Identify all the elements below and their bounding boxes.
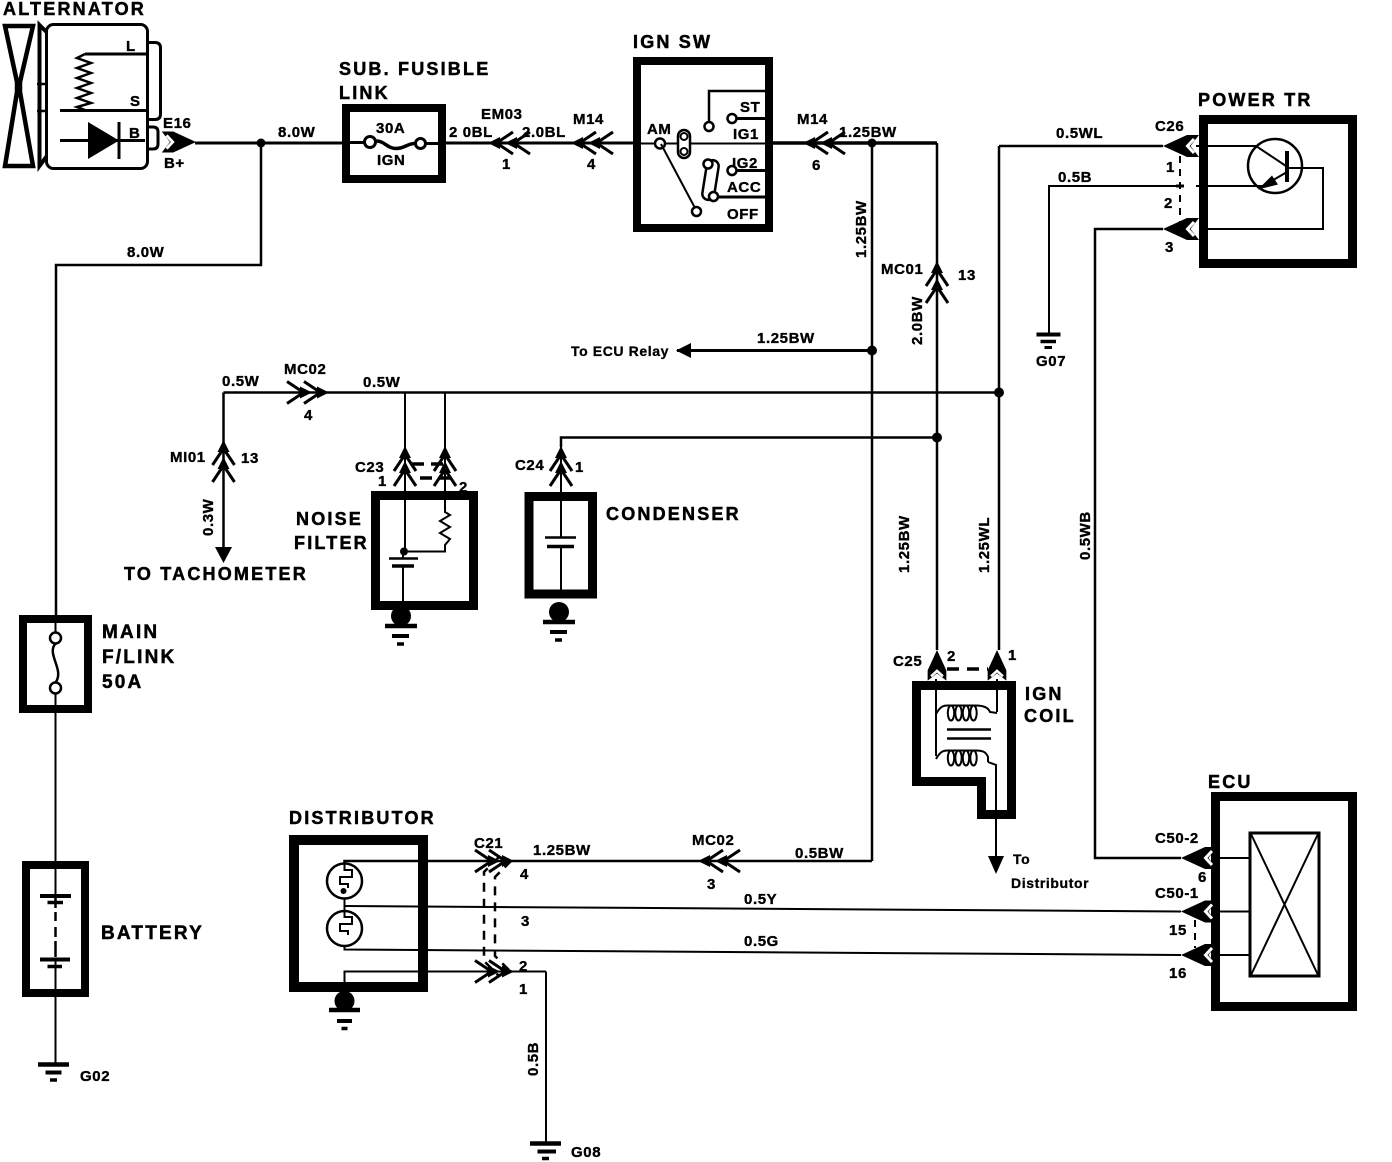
transformer secondary winding xyxy=(936,750,988,765)
svg-text:Distributor: Distributor xyxy=(1011,875,1089,891)
switch contact capsule (slanted) xyxy=(701,159,719,200)
wire stubs to block xyxy=(1213,857,1250,859)
battery box xyxy=(26,865,85,993)
wire condenser feed xyxy=(561,438,937,448)
AM wire through switch xyxy=(641,143,765,145)
noise filter case ground grommet xyxy=(391,606,411,626)
svg-text:2.0BW: 2.0BW xyxy=(909,296,926,345)
wire IGN SW output to junction xyxy=(769,141,937,145)
connector C23 pin 1 chevron xyxy=(394,446,416,486)
main fusible link box xyxy=(23,619,88,709)
svg-text:MAIN: MAIN xyxy=(102,622,159,643)
svg-text:To ECU Relay: To ECU Relay xyxy=(571,343,669,359)
connector MC02 chevron (pin 4) xyxy=(287,382,329,404)
transistor emitter lead with arrow xyxy=(1196,172,1287,186)
svg-text:C50-2: C50-2 xyxy=(1155,830,1199,847)
sub fusible link box xyxy=(346,108,442,179)
wire 2.0BW vertical from top corner xyxy=(936,143,939,650)
svg-text:0.5WL: 0.5WL xyxy=(1056,125,1103,142)
svg-text:COIL: COIL xyxy=(1024,706,1076,726)
pickup coil 2 (bottom circle) xyxy=(327,911,362,946)
condenser capacitor C xyxy=(560,500,562,537)
svg-text:G08: G08 xyxy=(571,1144,601,1161)
svg-text:C25: C25 xyxy=(893,653,922,670)
svg-text:2.0BL: 2.0BL xyxy=(522,124,566,141)
coil HT output wire xyxy=(988,762,996,856)
connector C25 pin 1 arrow xyxy=(988,650,1007,681)
wire battery to ground xyxy=(55,993,57,1063)
svg-text:0.5Y: 0.5Y xyxy=(744,891,777,908)
svg-text:E16: E16 xyxy=(163,115,192,132)
wire 0.5B to ground G08 xyxy=(545,972,547,1143)
ECU box xyxy=(1216,797,1353,1007)
svg-text:30A: 30A xyxy=(376,120,405,137)
transistor collector lead xyxy=(1201,168,1323,229)
svg-text:3: 3 xyxy=(1165,239,1174,256)
terminal L wire xyxy=(85,53,146,56)
svg-text:C21: C21 xyxy=(474,835,503,852)
condenser box xyxy=(529,497,593,595)
connector C25 pin 2 arrow xyxy=(928,650,947,681)
svg-text:M14: M14 xyxy=(797,111,828,128)
wire flink to battery xyxy=(55,709,57,865)
svg-text:0.5W: 0.5W xyxy=(363,374,401,391)
svg-text:1: 1 xyxy=(1166,159,1175,176)
svg-text:0.5G: 0.5G xyxy=(744,933,779,950)
connector MI01 chevron (pin 13) xyxy=(213,440,235,482)
connector C26 pin 1 arrow xyxy=(1163,135,1199,157)
svg-text:EM03: EM03 xyxy=(481,106,523,123)
svg-text:S: S xyxy=(130,93,141,110)
svg-text:C50-1: C50-1 xyxy=(1155,885,1199,902)
pin 2 tick xyxy=(1176,185,1184,188)
SECTION: power transistor xyxy=(999,90,1353,858)
condenser case ground grommet xyxy=(549,602,569,622)
svg-text:4: 4 xyxy=(520,866,529,883)
connector M14 chevron xyxy=(571,132,613,154)
AM terminal circle xyxy=(655,139,665,149)
wire drop to C23 pin 2 xyxy=(444,393,446,501)
svg-text:L: L xyxy=(126,38,136,55)
connector C24 pin 1 chevron xyxy=(550,446,572,486)
svg-text:MC02: MC02 xyxy=(692,832,734,849)
coil secondary feed wire (pin 1 side) xyxy=(996,679,998,712)
svg-text:16: 16 xyxy=(1169,965,1187,982)
C26 dashed link xyxy=(1179,156,1181,222)
transformer primary winding xyxy=(936,705,997,720)
svg-text:1: 1 xyxy=(519,981,528,998)
svg-text:1: 1 xyxy=(575,459,584,476)
svg-text:6: 6 xyxy=(812,157,821,174)
wire 0.5W horizontal run xyxy=(224,391,1000,394)
wire 0.5WB pin 3 to ECU xyxy=(1095,229,1181,858)
ECU internal block with X xyxy=(1250,833,1319,976)
wire pin 3 (0.5Y) xyxy=(345,906,1182,912)
svg-text:1: 1 xyxy=(502,156,511,173)
pickup coil 1 (top circle) xyxy=(327,864,362,899)
svg-text:6: 6 xyxy=(1198,869,1207,886)
ground G02 xyxy=(38,1065,69,1081)
fusible link element 30A xyxy=(348,141,365,144)
connector C50-1 pin 16 arrow xyxy=(1181,944,1217,966)
svg-text:1.25BW: 1.25BW xyxy=(757,330,815,347)
alternator pulley hub lines xyxy=(37,84,46,111)
POWER TR box xyxy=(1204,120,1353,264)
svg-text:M14: M14 xyxy=(573,111,604,128)
svg-text:1.25BW: 1.25BW xyxy=(853,200,870,258)
svg-text:OFF: OFF xyxy=(727,206,759,223)
alternator field coil (rotor winding) xyxy=(77,54,91,110)
noise filter internal wire pin1 xyxy=(404,500,406,551)
svg-text:C26: C26 xyxy=(1155,118,1184,135)
SECTION: center wires xyxy=(124,139,1004,862)
svg-text:0.5BW: 0.5BW xyxy=(795,845,844,862)
C23 dashed links xyxy=(412,462,447,466)
svg-text:F/LINK: F/LINK xyxy=(102,647,176,668)
connector shell bracket B xyxy=(148,127,158,149)
ground (condenser) xyxy=(543,622,575,640)
rectifier diode xyxy=(88,122,119,159)
svg-text:To: To xyxy=(1013,851,1030,867)
svg-text:SUB. FUSIBLE: SUB. FUSIBLE xyxy=(339,59,490,79)
svg-text:C24: C24 xyxy=(515,457,544,474)
svg-text:3: 3 xyxy=(521,913,530,930)
IG2 terminal circle and wire xyxy=(728,166,737,175)
SECTION: distributor xyxy=(289,808,1181,1161)
svg-text:FILTER: FILTER xyxy=(294,533,369,553)
svg-text:0.5W: 0.5W xyxy=(222,373,260,390)
wire fuse to IGN SW xyxy=(446,142,635,145)
svg-text:1.25BW: 1.25BW xyxy=(533,842,591,859)
SECTION: ign coil xyxy=(893,647,1089,891)
C25 dashed link xyxy=(947,667,988,671)
svg-text:B+: B+ xyxy=(164,155,185,172)
svg-text:ALTERNATOR: ALTERNATOR xyxy=(3,0,146,19)
svg-text:0.5B: 0.5B xyxy=(525,1042,542,1076)
wire pin 2 (0.5G) xyxy=(345,946,1182,955)
svg-text:0.3W: 0.3W xyxy=(200,498,217,536)
svg-text:50A: 50A xyxy=(102,672,143,693)
svg-text:2: 2 xyxy=(519,958,528,975)
connector shell bracket L-S xyxy=(148,43,161,120)
svg-text:4: 4 xyxy=(304,407,313,424)
wire 1.25BW vertical (to coil circuit) xyxy=(871,143,874,861)
wire to ECU relay xyxy=(677,349,872,352)
svg-text:2: 2 xyxy=(1164,195,1173,212)
wire drop to C24 pin 1 xyxy=(560,447,562,500)
junction dot in noise filter xyxy=(400,548,408,556)
svg-text:ST: ST xyxy=(740,99,760,116)
alternator pulley left sheave xyxy=(5,26,33,166)
ST feed wire xyxy=(709,91,765,121)
wire pin 1 (ground lead) xyxy=(345,972,547,986)
SECTION: alternator xyxy=(3,0,196,172)
svg-text:8.0W: 8.0W xyxy=(127,244,165,261)
SECTION: ignition switch xyxy=(633,32,937,228)
junction dot condenser feed joins v2 xyxy=(932,433,942,443)
connector E16 arrow (B+ output) xyxy=(162,132,196,153)
svg-text:BATTERY: BATTERY xyxy=(101,923,204,944)
C21 dashed bracket xyxy=(484,857,499,976)
SECTION: ecu xyxy=(1155,772,1353,1007)
svg-text:15: 15 xyxy=(1169,922,1187,939)
svg-text:4: 4 xyxy=(587,156,596,173)
junction at B+ node xyxy=(257,139,266,148)
distributor ground grommet xyxy=(335,991,355,1011)
ign coil T1 case (L-shaped box) xyxy=(917,686,1012,815)
distributor box xyxy=(294,840,423,987)
ground G07 xyxy=(1037,335,1061,348)
alternator pulley right sheave xyxy=(40,25,52,166)
svg-text:ECU: ECU xyxy=(1208,772,1253,792)
svg-text:13: 13 xyxy=(241,450,259,467)
wire down to tachometer xyxy=(222,393,225,549)
svg-text:2: 2 xyxy=(947,648,956,665)
svg-text:3: 3 xyxy=(707,876,716,893)
connector C50-1 pin 15 arrow xyxy=(1181,901,1217,923)
connector C21 pin 1 chevron xyxy=(475,961,514,983)
wire branch down from junction xyxy=(56,143,261,615)
junction dot 0.5W joins v3 xyxy=(994,388,1004,398)
transistor base lead xyxy=(1196,146,1286,166)
wire between pickup circles xyxy=(344,898,346,911)
SECTION: noise filter / condenser xyxy=(294,393,741,645)
arrow To Distributor xyxy=(988,856,1004,874)
transistor Q1 circle xyxy=(1248,139,1302,193)
svg-text:DISTRIBUTOR: DISTRIBUTOR xyxy=(289,808,436,828)
connector C21 pin 4 chevron xyxy=(475,850,514,872)
ST terminal circle and wire xyxy=(728,114,737,123)
svg-text:MI01: MI01 xyxy=(170,449,206,466)
svg-text:NOISE: NOISE xyxy=(296,509,363,529)
svg-text:1.25WL: 1.25WL xyxy=(976,517,993,573)
svg-text:1: 1 xyxy=(1008,647,1017,664)
connector M14 chevron pin 6 xyxy=(803,132,845,154)
svg-text:TO TACHOMETER: TO TACHOMETER xyxy=(124,564,308,584)
noise filter box xyxy=(376,496,474,606)
SECTION: fusible link xyxy=(56,59,635,615)
svg-text:IG1: IG1 xyxy=(733,126,759,143)
IGN SW box xyxy=(637,61,769,228)
noise filter capacitor xyxy=(389,557,418,560)
svg-text:0.5WB: 0.5WB xyxy=(1077,511,1094,560)
wire drop to C23 pin 1 xyxy=(404,393,406,501)
svg-text:1.25BW: 1.25BW xyxy=(839,124,897,141)
svg-text:8.0W: 8.0W xyxy=(278,124,316,141)
connector MC02 chevron pin 3 xyxy=(698,850,740,872)
svg-text:G02: G02 xyxy=(80,1068,110,1085)
svg-text:MC01: MC01 xyxy=(881,261,923,278)
connector C50-2 pin 6 arrow xyxy=(1181,847,1217,869)
connector C23 pin 2 chevron xyxy=(434,446,456,486)
svg-text:MC02: MC02 xyxy=(284,361,326,378)
arrow to ECU relay xyxy=(676,343,691,358)
connector C26 pin 3 arrow xyxy=(1163,218,1199,240)
svg-text:IGN: IGN xyxy=(1025,684,1064,704)
wire B+ to junction xyxy=(195,142,342,145)
wire 0.5WL vertical segment (v3) xyxy=(998,146,1001,650)
diode wire xyxy=(60,139,145,142)
transistor base bar xyxy=(1285,151,1289,182)
ground (noise filter) xyxy=(385,626,417,644)
svg-text:13: 13 xyxy=(958,267,976,284)
svg-text:IGN SW: IGN SW xyxy=(633,32,712,52)
connector EM03 chevron xyxy=(488,132,530,154)
svg-text:B: B xyxy=(129,125,140,142)
svg-text:2 0BL: 2 0BL xyxy=(449,124,493,141)
main fusible link element xyxy=(50,633,61,644)
svg-text:CONDENSER: CONDENSER xyxy=(606,504,741,524)
svg-text:IGN: IGN xyxy=(377,152,405,169)
svg-text:AM: AM xyxy=(647,121,672,138)
svg-text:POWER TR: POWER TR xyxy=(1198,90,1313,110)
coil primary feed wire (pin 2 side) xyxy=(935,679,937,756)
svg-text:0.5B: 0.5B xyxy=(1058,169,1092,186)
arrow to tachometer xyxy=(215,547,232,563)
ACC wire from capsule xyxy=(718,196,765,199)
battery cells xyxy=(40,869,71,989)
ground G08 xyxy=(530,1144,561,1159)
noise filter resistor (choke) xyxy=(408,500,450,552)
connector MC01 chevron (pin 13) xyxy=(926,261,948,303)
transformer core xyxy=(947,728,991,731)
alternator body box xyxy=(47,25,148,169)
wire 0.5WL to pin 1 xyxy=(999,145,1163,148)
wire 0.5B from pin 2 to ground xyxy=(1049,186,1176,333)
svg-text:1.25BW: 1.25BW xyxy=(896,515,913,573)
wire pin 4 (1.25BW) xyxy=(345,861,873,863)
svg-text:G07: G07 xyxy=(1036,353,1066,370)
switch contact capsule (vertical) xyxy=(678,130,690,158)
switch lever xyxy=(661,144,695,208)
svg-text:1: 1 xyxy=(378,473,387,490)
SECTION: main flink battery xyxy=(23,619,204,1085)
ground (distributor) xyxy=(329,1010,360,1029)
svg-text:ACC: ACC xyxy=(727,179,761,196)
C50-1 dashed link xyxy=(1194,920,1196,948)
node junction on 1.25BW at IGN SW output xyxy=(868,139,877,148)
dangling contact circle xyxy=(705,122,714,131)
junction dot on v1 for relay feed xyxy=(867,346,877,356)
svg-text:LINK: LINK xyxy=(339,83,390,103)
terminal S wire xyxy=(60,109,146,112)
